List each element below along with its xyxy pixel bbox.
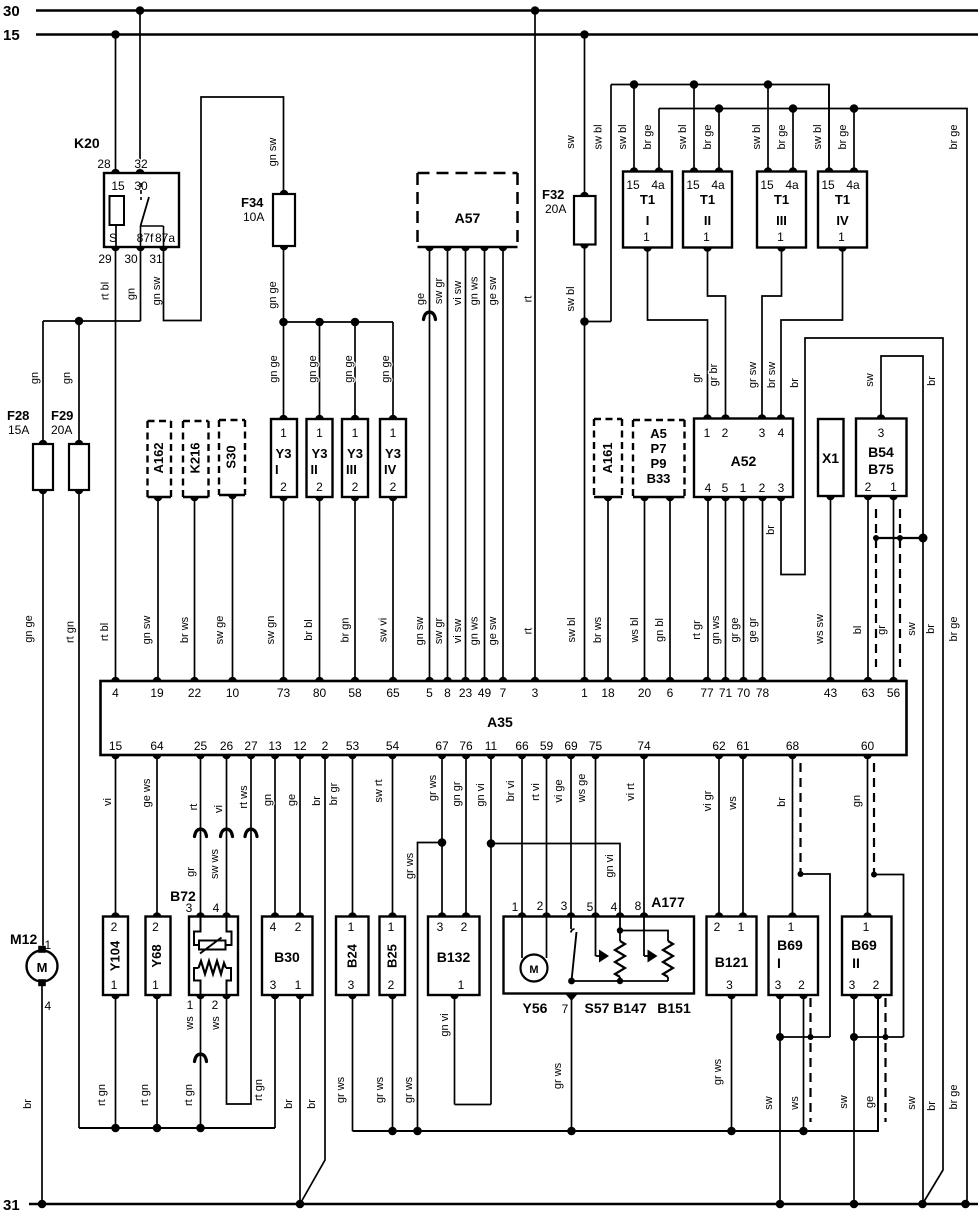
svg-text:68: 68	[786, 739, 800, 753]
node gn at F29	[75, 317, 84, 326]
wire label sw (B54 pin3)	[864, 373, 876, 387]
valve Y3 III	[342, 415, 368, 502]
svg-text:gn ge: gn ge	[267, 281, 279, 309]
wire label br (pin 2)	[311, 796, 323, 806]
svg-text:Y3: Y3	[276, 446, 292, 461]
wire A35 pin 64 to Y68	[156, 755, 158, 917]
B72 resistor element	[194, 961, 231, 995]
svg-text:26: 26	[220, 739, 234, 753]
svg-text:2: 2	[537, 899, 544, 913]
wire Y3 IV to A35 pin 65	[392, 497, 394, 681]
wire A35 pin 25 to B72 pin 3	[200, 755, 202, 917]
svg-text:T1: T1	[640, 192, 655, 207]
svg-text:87f: 87f	[137, 231, 154, 245]
svg-text:gn: gn	[29, 372, 41, 384]
wire label gn vi (A177 pin4)	[604, 854, 616, 877]
svg-text:30: 30	[124, 252, 138, 266]
svg-text:1: 1	[512, 900, 519, 914]
svg-text:31: 31	[149, 252, 163, 266]
svg-text:gr: gr	[876, 625, 888, 635]
node rail B69 I	[799, 1127, 808, 1136]
svg-text:br: br	[926, 1101, 938, 1111]
wire label gn ge (Y3 IV)	[380, 355, 392, 383]
svg-text:P7: P7	[651, 441, 667, 456]
valve Y3 I	[271, 415, 297, 502]
svg-text:III: III	[346, 462, 357, 477]
ignition coil T1 IV	[818, 167, 867, 252]
svg-text:vi ge: vi ge	[553, 779, 565, 802]
node br ge rail T1 III	[789, 104, 798, 113]
wire A35 pin 74 to A177 pin 8	[643, 755, 645, 917]
svg-text:2: 2	[873, 978, 880, 992]
svg-text:br ge: br ge	[642, 124, 654, 149]
svg-text:gr ge: gr ge	[729, 617, 741, 642]
node br ge rail T1 II	[715, 104, 724, 113]
wire label br ge (T1 II)	[702, 124, 714, 149]
svg-text:gn vi: gn vi	[475, 783, 487, 806]
node sw bl rail T1 I	[630, 80, 639, 89]
node B30 ground on bus 31	[296, 1200, 305, 1209]
svg-text:19: 19	[150, 686, 164, 700]
wire B24 pin 3 to gr ws rail	[352, 995, 354, 1131]
connector X1	[818, 419, 844, 500]
screen dash B69 I lower	[809, 998, 811, 1122]
wire label br (pin 68)	[776, 797, 788, 807]
svg-text:vi: vi	[102, 798, 114, 806]
svg-text:sw gn: sw gn	[265, 616, 277, 645]
svg-text:br: br	[926, 376, 938, 386]
svg-text:X1: X1	[822, 450, 839, 466]
wire label sw bl (F32 lower)	[565, 286, 577, 311]
svg-text:B33: B33	[647, 471, 671, 486]
svg-text:15: 15	[3, 27, 20, 44]
wire label ge sw	[487, 277, 499, 306]
svg-text:br ge: br ge	[948, 1084, 960, 1109]
svg-text:1: 1	[643, 230, 650, 244]
screen dash pin 68	[799, 763, 801, 874]
svg-text:Y56: Y56	[523, 1000, 548, 1016]
svg-text:25: 25	[194, 739, 208, 753]
wire label gn sw (F34 top)	[267, 138, 279, 167]
wire label vi sw (pin 23)	[452, 619, 464, 644]
svg-text:15: 15	[626, 178, 640, 192]
wire label sw ws (pin 26 lower)	[209, 849, 221, 879]
svg-text:2: 2	[322, 739, 329, 753]
wire A52-4 to A35 pin 77	[707, 497, 709, 681]
wire label sw (B69 I pin3)	[763, 1096, 775, 1110]
svg-text:Y3: Y3	[312, 446, 328, 461]
svg-text:8: 8	[444, 686, 451, 700]
svg-text:sw: sw	[565, 135, 577, 149]
svg-text:1: 1	[388, 920, 395, 934]
relay K20	[74, 135, 179, 266]
svg-text:rt gn: rt gn	[183, 1084, 195, 1106]
svg-text:gn ge: gn ge	[343, 355, 355, 383]
svg-text:br: br	[776, 797, 788, 807]
wire pin 11 to B132 pin 1	[455, 995, 492, 1105]
svg-text:3: 3	[759, 426, 766, 440]
wire label gr (pin 56)	[876, 625, 888, 635]
wire label rt gn (Y104)	[96, 1084, 108, 1106]
node sw bl rail T1 III	[764, 80, 773, 89]
svg-text:br bl: br bl	[303, 619, 315, 640]
svg-text:rt: rt	[188, 804, 200, 811]
sensor B151	[620, 931, 673, 982]
wire X1 to A35 pin 43	[830, 496, 832, 681]
svg-text:br ge: br ge	[837, 124, 849, 149]
svg-text:vi gr: vi gr	[702, 790, 714, 811]
svg-text:71: 71	[719, 686, 733, 700]
svg-text:sw vi: sw vi	[378, 618, 390, 642]
wire label gr	[691, 373, 703, 383]
wire label sw bl (riser)	[593, 124, 605, 149]
wire label sw bl (T1 III)	[751, 124, 763, 149]
svg-text:gn gr: gn gr	[451, 781, 463, 806]
wire label br (A52 pin3)	[765, 525, 777, 535]
wire bus30 to K20 pin 32	[139, 11, 141, 174]
node br ge on bus 31	[961, 1200, 970, 1209]
svg-text:2: 2	[461, 920, 468, 934]
svg-text:S57: S57	[585, 1000, 610, 1016]
svg-text:gr sw: gr sw	[747, 362, 759, 388]
wire A35 pin 75 to A177 pin 5	[595, 755, 597, 917]
wire label br (B30 pin1)	[283, 1099, 295, 1109]
svg-text:13: 13	[268, 739, 282, 753]
svg-text:2: 2	[111, 920, 118, 934]
wire label gn ge (Y3 I)	[268, 355, 280, 383]
svg-text:4a: 4a	[651, 178, 665, 192]
wire bus15 to K20 pin 28	[115, 35, 117, 174]
svg-text:A35: A35	[487, 714, 513, 730]
svg-text:1: 1	[890, 480, 897, 494]
wire A57-1 to A35 pin 5	[429, 247, 431, 681]
svg-text:gn vi: gn vi	[439, 1013, 451, 1036]
wire label gn sw (pin 19)	[141, 616, 153, 645]
svg-text:59: 59	[540, 739, 554, 753]
screen tie B69 I lower	[776, 1033, 830, 1041]
svg-text:ws: ws	[727, 796, 739, 811]
svg-text:3: 3	[878, 426, 885, 440]
wire label rt gn (B72)	[183, 1084, 195, 1106]
node sw bl junction	[580, 317, 589, 326]
wire label br vi (pin 66)	[505, 781, 517, 802]
svg-text:II: II	[311, 462, 318, 477]
svg-text:br sw: br sw	[766, 362, 778, 388]
svg-text:30: 30	[3, 3, 20, 20]
gn ge rail	[284, 321, 394, 323]
node B69 I ground on bus 31	[776, 1200, 785, 1209]
wire A35 pin 12 to B30 pin 2	[299, 755, 301, 917]
svg-text:vi rt: vi rt	[625, 783, 637, 801]
svg-text:vi sw: vi sw	[452, 619, 464, 644]
screen tie B69 I upper	[798, 871, 831, 1037]
svg-text:gn: gn	[262, 794, 274, 806]
svg-text:2: 2	[280, 480, 287, 494]
wire A35 pin 60 to B69 II pin 1	[867, 755, 869, 917]
svg-text:I: I	[777, 955, 781, 971]
svg-text:gr ws: gr ws	[552, 1062, 564, 1089]
svg-text:23: 23	[459, 686, 473, 700]
wire T1 I pin1 to A52 pin 1	[648, 248, 708, 419]
connector A161	[594, 419, 622, 501]
svg-text:br ge: br ge	[702, 124, 714, 149]
svg-text:65: 65	[386, 686, 400, 700]
wire B54 pin1 to A35 pin 56	[893, 496, 895, 681]
svg-text:gr: gr	[691, 373, 703, 383]
wire rail to Y3 II pin 1	[319, 322, 321, 419]
wire label br (right bottom)	[926, 1101, 938, 1111]
wire label rt gr	[691, 620, 703, 640]
positioner Y56 motor	[521, 917, 548, 982]
sensor B132	[428, 912, 480, 999]
wire label gr ws (branch)	[404, 852, 416, 879]
wire T1 II pin1 to A52 pin 2	[708, 248, 726, 419]
svg-text:69: 69	[564, 739, 578, 753]
wire label rt (lower)	[523, 628, 535, 635]
wire A162 to A35 pin 19	[157, 497, 159, 681]
svg-text:1: 1	[295, 978, 302, 992]
svg-text:3: 3	[561, 899, 568, 913]
svg-text:gn: gn	[126, 288, 138, 300]
svg-text:2: 2	[388, 978, 395, 992]
motor M12	[10, 931, 58, 1013]
svg-text:64: 64	[150, 739, 164, 753]
svg-text:gn: gn	[61, 372, 73, 384]
svg-text:A161: A161	[600, 442, 615, 473]
svg-text:2: 2	[152, 920, 159, 934]
arrow on ge wire	[424, 312, 436, 320]
svg-text:I: I	[646, 213, 650, 228]
wire A35 pin 2 br to bus 31	[300, 755, 325, 1204]
svg-text:gn ge: gn ge	[380, 355, 392, 383]
svg-text:66: 66	[515, 739, 529, 753]
wire label gn ge (M12 wire)	[23, 615, 35, 643]
svg-text:B121: B121	[715, 954, 749, 970]
svg-text:br gn: br gn	[340, 617, 352, 642]
wire label br sw	[766, 362, 778, 388]
svg-text:M12: M12	[10, 931, 37, 947]
svg-text:sw bl: sw bl	[812, 124, 824, 149]
screen dash pin 60	[873, 763, 875, 875]
svg-text:IV: IV	[836, 213, 849, 228]
wire label ws (B69 I pin2)	[789, 1096, 801, 1111]
svg-text:P9: P9	[651, 456, 667, 471]
heated resistor B72	[170, 888, 238, 1012]
svg-text:gn ge: gn ge	[268, 355, 280, 383]
svg-text:rt vi: rt vi	[530, 783, 542, 801]
wire A57-3 to A35 pin 23	[465, 247, 467, 681]
wire B69 II pin 3 to bus 31	[853, 995, 855, 1204]
node rail branch	[413, 1127, 422, 1136]
wire label sw bl (T1 II)	[677, 124, 689, 149]
wire label gr ws (B121)	[712, 1058, 724, 1085]
svg-text:1: 1	[280, 426, 287, 440]
sw bl rail	[611, 85, 829, 172]
wire A35 pin 11 gn vi	[490, 755, 492, 1105]
sensor B69 II	[842, 912, 892, 999]
svg-text:sw gr: sw gr	[433, 618, 445, 645]
svg-text:A5: A5	[650, 426, 667, 441]
svg-text:12: 12	[293, 739, 307, 753]
wire label vi gr (pin 62)	[702, 790, 714, 811]
wire label sw bl (A35 pin 1)	[566, 617, 578, 642]
wire A35 pin 68 to B69 I pin 1	[792, 755, 794, 917]
svg-text:87a: 87a	[155, 231, 175, 245]
wire label br bl	[303, 619, 315, 640]
valve Y3 II	[307, 415, 333, 502]
wire S57 to resistor common	[572, 980, 669, 982]
svg-text:ge sw: ge sw	[487, 277, 499, 306]
svg-text:sw bl: sw bl	[677, 124, 689, 149]
wire B30 pin 1 to bus 31	[299, 995, 301, 1204]
wire label sw vi	[378, 618, 390, 642]
svg-text:4: 4	[778, 426, 785, 440]
wire K216 to A35 pin 22	[194, 497, 196, 681]
svg-text:3: 3	[270, 978, 277, 992]
wire label gn ws (pin 49)	[469, 616, 481, 645]
ignition coil T1 III	[757, 167, 806, 252]
gr ws rail	[353, 995, 879, 1131]
wire A35 pin 69 to A177 pin 3	[570, 755, 572, 917]
svg-text:rt bl: rt bl	[100, 282, 112, 300]
wire A5 to A35 pin 20	[644, 497, 646, 681]
svg-text:bl: bl	[852, 626, 864, 635]
wire bus 15 to F32	[584, 35, 586, 197]
svg-text:3: 3	[849, 978, 856, 992]
wire sw bl drop T1 IV	[828, 85, 830, 172]
node on bus 30 for rt wire	[531, 6, 540, 15]
wire label gn ws (pin 71)	[710, 615, 722, 644]
wire label gr br	[708, 363, 720, 386]
svg-text:4: 4	[112, 686, 119, 700]
throttle unit A177	[504, 894, 695, 1016]
svg-text:15: 15	[821, 178, 835, 192]
svg-text:ge: ge	[286, 794, 298, 806]
svg-text:sw: sw	[763, 1096, 775, 1110]
svg-text:54: 54	[386, 739, 400, 753]
svg-text:1: 1	[152, 978, 159, 992]
svg-text:74: 74	[637, 739, 651, 753]
wire label ge	[415, 293, 427, 305]
svg-text:gn: gn	[851, 795, 863, 807]
sensor B69 I	[769, 912, 819, 999]
wire A35 pin 26 to B72 pin 4	[226, 755, 228, 917]
wire label vi ge (pin 69)	[553, 779, 565, 802]
svg-text:br ws: br ws	[592, 616, 604, 643]
wire B54 pin2 to A35 pin 63	[867, 496, 869, 681]
svg-text:1: 1	[777, 230, 784, 244]
svg-text:27: 27	[244, 739, 258, 753]
wire A35 pin 66 to A177 pin 1	[521, 755, 523, 917]
svg-text:rt gr: rt gr	[691, 620, 703, 640]
svg-text:rt gn: rt gn	[65, 621, 77, 643]
screen dash pin63	[875, 509, 877, 667]
wire label br (right mid)	[925, 624, 937, 634]
svg-text:75: 75	[589, 739, 603, 753]
wire label sw gr	[433, 278, 445, 305]
svg-text:gr ws: gr ws	[403, 1076, 415, 1103]
svg-text:5: 5	[426, 686, 433, 700]
svg-text:4a: 4a	[785, 178, 799, 192]
svg-text:gn ws: gn ws	[710, 615, 722, 644]
wire junction to sw bl riser	[585, 85, 612, 322]
wire F34 to gn ge rail	[283, 246, 285, 322]
node rail Y104	[111, 1124, 120, 1133]
wire T1 IV pin1 to A52 pin 4	[781, 248, 843, 419]
svg-text:T1: T1	[774, 192, 789, 207]
wire br ge drop T1 II	[718, 109, 720, 172]
svg-text:br ws: br ws	[179, 616, 191, 643]
wire label gn (K20 pin 30)	[126, 288, 138, 300]
wire sw bl drop T1 I	[633, 85, 635, 172]
wire label gn bl (pin 6)	[654, 618, 666, 642]
wire gn to F29	[78, 321, 80, 444]
node rail Y68	[153, 1124, 162, 1133]
B72 PTC element	[194, 917, 232, 954]
svg-text:3: 3	[775, 978, 782, 992]
svg-text:18: 18	[601, 686, 615, 700]
svg-text:gn vi: gn vi	[604, 854, 616, 877]
svg-text:br gr: br gr	[328, 782, 340, 805]
wire label gn sw (K20 pin 31)	[151, 277, 163, 306]
wire B69 I pin 3 to bus 31	[779, 995, 781, 1204]
wire label br ws (pin 22)	[179, 616, 191, 643]
svg-text:B69: B69	[777, 937, 803, 953]
svg-text:1: 1	[704, 426, 711, 440]
svg-text:4: 4	[270, 920, 277, 934]
svg-text:gr br: gr br	[708, 363, 720, 386]
svg-text:ws: ws	[210, 1016, 222, 1031]
svg-text:gn ge: gn ge	[23, 615, 35, 643]
screen tie B69 II lower	[850, 1033, 904, 1041]
sensor B24	[336, 912, 369, 999]
sensor B30	[262, 912, 313, 999]
svg-text:rt gn: rt gn	[139, 1084, 151, 1106]
wire sw bl drop T1 III	[767, 85, 769, 172]
svg-text:1: 1	[352, 426, 359, 440]
valve Y3 IV	[380, 415, 406, 502]
wire sw bl drop T1 II	[693, 85, 695, 172]
svg-text:gn sw: gn sw	[414, 617, 426, 646]
svg-text:gn ws: gn ws	[469, 276, 481, 305]
node pin 67 branch	[438, 838, 447, 847]
svg-text:A57: A57	[455, 210, 481, 226]
svg-text:78: 78	[756, 686, 770, 700]
svg-text:5: 5	[587, 900, 594, 914]
svg-text:1: 1	[581, 686, 588, 700]
wire gn horizontal to fuses	[43, 320, 141, 322]
svg-text:ge: ge	[415, 293, 427, 305]
svg-text:56: 56	[887, 686, 901, 700]
svg-text:7: 7	[562, 1002, 569, 1016]
wire label gr ws (branch lower)	[403, 1076, 415, 1103]
node gn ge rail at Y3 I	[279, 318, 288, 327]
control unit A57	[418, 173, 518, 251]
wire label rt gn (F29 wire)	[65, 621, 77, 643]
wire B25 pin 2 to gr ws rail	[392, 995, 394, 1131]
svg-text:73: 73	[277, 686, 291, 700]
rt gn rail	[79, 1127, 275, 1129]
svg-text:4: 4	[213, 901, 220, 915]
svg-text:3: 3	[186, 901, 193, 915]
svg-text:20: 20	[638, 686, 652, 700]
svg-text:I: I	[275, 462, 279, 477]
svg-text:2: 2	[212, 998, 219, 1012]
svg-text:sw ge: sw ge	[214, 616, 226, 645]
node rail pin 7	[567, 1127, 576, 1136]
wire label br ws (pin 18)	[592, 616, 604, 643]
wire label sw (B69 II pin3)	[838, 1095, 850, 1109]
